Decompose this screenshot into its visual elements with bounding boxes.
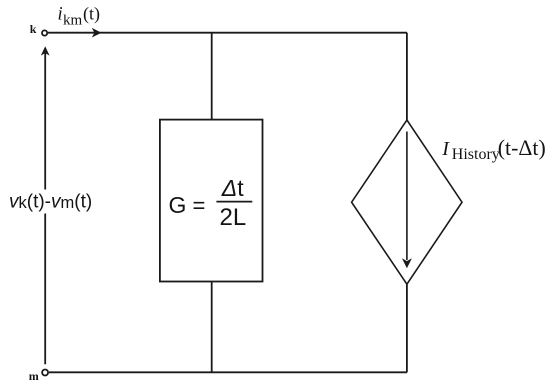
svg-text:m: m <box>29 369 39 383</box>
resistor/conductance box G <box>160 120 263 282</box>
svg-text:km: km <box>63 12 83 28</box>
current source I_History diamond <box>352 120 462 284</box>
svg-text:vk(t)-vm(t): vk(t)-vm(t) <box>9 191 92 212</box>
svg-text:Δt: Δt <box>221 175 244 201</box>
arrowhead: voltage reference arrow pointing up toward k <box>41 46 50 55</box>
svg-text:G =: G = <box>169 192 206 218</box>
wire: left voltage branch lower segment <box>44 214 46 365</box>
wire: left voltage branch upper segment <box>44 51 46 190</box>
arrow shaft inside current source <box>406 132 408 261</box>
svg-text:(t-Δt): (t-Δt) <box>498 136 546 160</box>
svg-text:I: I <box>441 138 450 160</box>
wire: right branch upper segment <box>406 33 408 120</box>
node m terminal circle <box>42 370 48 376</box>
wire: top bus from node k to right branch <box>48 32 407 34</box>
svg-text:2L: 2L <box>220 204 247 231</box>
svg-text:i: i <box>58 5 63 25</box>
wire: bottom bus from node m to right branch <box>49 371 407 373</box>
arrowhead: current direction i_km on top wire <box>92 28 102 38</box>
svg-text:k: k <box>30 22 37 36</box>
wire: right branch lower segment <box>406 284 408 372</box>
wire: lead from conductance box to bottom bus <box>211 282 213 373</box>
svg-text:History: History <box>452 146 500 163</box>
node k terminal circle <box>42 30 47 35</box>
fraction bar <box>216 201 252 203</box>
svg-text:(t): (t) <box>83 4 100 25</box>
arrowhead inside current source pointing down <box>402 258 412 268</box>
wire: lead from top bus into conductance box <box>211 33 213 120</box>
